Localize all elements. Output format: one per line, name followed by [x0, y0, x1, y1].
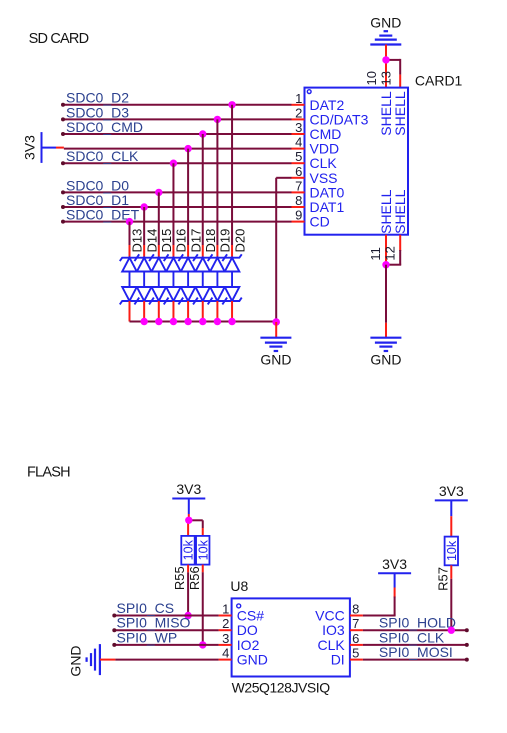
svg-text:6: 6 [352, 631, 359, 646]
wire net SDC0_D3 [63, 118, 292, 120]
svg-text:GND: GND [68, 645, 84, 676]
wire jog to pin 13 [386, 59, 400, 61]
CARD1 pin 12 stub [399, 235, 401, 251]
wire GND to pin 4 [100, 659, 116, 661]
svg-text:GND: GND [260, 352, 291, 368]
junction dot net SDC0_CMD [199, 130, 206, 137]
svg-text:2: 2 [222, 616, 229, 631]
wire D17 to gnd bus [187, 301, 189, 322]
wire net SPI0_MISO [114, 629, 218, 631]
CARD1 pin 3 stub [292, 133, 305, 135]
svg-text:W25Q128JVSIQ: W25Q128JVSIQ [232, 680, 331, 696]
svg-text:CD: CD [310, 214, 330, 230]
junction dot bus/D19 [214, 318, 221, 325]
wire D18 to gnd bus [202, 301, 204, 322]
svg-text:2: 2 [295, 105, 302, 120]
end dot net SDC0_D1 [61, 205, 65, 209]
svg-text:IO3: IO3 [322, 622, 345, 638]
wire to R55 [187, 520, 189, 536]
end dot net SDC0_CLK [61, 161, 65, 165]
svg-text:SDC0_CLK: SDC0_CLK [66, 148, 139, 164]
wire D20 to gnd bus [231, 301, 233, 322]
svg-text:D14: D14 [144, 229, 159, 253]
end dot net SPI0_CLK [465, 643, 469, 647]
svg-text:DAT2: DAT2 [310, 97, 345, 113]
svg-text:DI: DI [331, 652, 345, 668]
wire net SDC0_D1 [63, 206, 292, 208]
svg-text:13: 13 [378, 71, 393, 85]
wire 3V3/VDD down to TVS [187, 149, 189, 245]
junction dot bus/D15 [155, 318, 162, 325]
svg-text:SHELL: SHELL [392, 189, 408, 234]
end dot net SDC0_D0 [61, 190, 65, 194]
U8 pin 7 stub [350, 629, 363, 631]
svg-text:SPI0_MISO: SPI0_MISO [117, 615, 191, 631]
CARD1 pin 6 stub [292, 177, 305, 179]
junction dot bus/D16 [170, 318, 177, 325]
pin-1 indicator CARD1 [307, 90, 311, 94]
svg-text:GND: GND [370, 352, 401, 368]
svg-text:VSS: VSS [310, 170, 338, 186]
svg-text:11: 11 [368, 247, 383, 261]
svg-text:CLK: CLK [317, 637, 345, 653]
svg-text:SD CARD: SD CARD [29, 31, 89, 47]
power 3V3 (R57) [435, 483, 468, 500]
diode D13 (bidirectional TVS) [120, 254, 139, 304]
wire to R56 [188, 519, 203, 521]
wire SDC0_CLK down to TVS [172, 163, 174, 245]
resistor R57 10k [436, 537, 459, 591]
end dot net SPI0_MOSI [465, 658, 469, 662]
svg-text:D20: D20 [232, 229, 247, 253]
U8 pin 6 stub [350, 644, 363, 646]
wire D14 to gnd bus [143, 301, 145, 322]
CARD1 pin 2 stub [292, 118, 305, 120]
svg-text:D16: D16 [174, 229, 189, 253]
svg-text:FLASH: FLASH [27, 465, 70, 481]
diode D20 (bidirectional TVS) [222, 254, 241, 304]
svg-text:IO2: IO2 [237, 637, 260, 653]
junction dot R57/SPI0_HOLD [448, 627, 455, 634]
svg-text:GND: GND [237, 652, 268, 668]
power 3V3 (VCC) [378, 556, 411, 573]
svg-text:10k: 10k [445, 540, 459, 561]
svg-text:SDC0_D0: SDC0_D0 [66, 177, 129, 193]
svg-text:5: 5 [352, 646, 359, 661]
svg-text:SPI0_HOLD: SPI0_HOLD [379, 615, 456, 631]
svg-text:CLK: CLK [310, 155, 338, 171]
wire net SDC0_D0 [63, 191, 292, 193]
svg-text:SPI0_CLK: SPI0_CLK [379, 629, 445, 645]
wire SDC0_DET down to TVS [129, 222, 131, 245]
junction dot net SDC0_CLK [170, 160, 177, 167]
wire net SPI0_WP [114, 644, 218, 646]
U8 pin 4 stub [219, 659, 232, 661]
svg-text:D18: D18 [203, 229, 218, 253]
svg-text:1: 1 [222, 602, 229, 617]
U8 pin 3 stub [219, 644, 232, 646]
svg-text:GND: GND [370, 15, 401, 31]
diode D18 (bidirectional TVS) [193, 254, 212, 304]
U8 pin 8 stub [350, 615, 363, 617]
end dot net SDC0_CMD [61, 132, 65, 136]
svg-text:8: 8 [295, 193, 302, 208]
diode D17 (bidirectional TVS) [178, 254, 197, 304]
wire net SPI0_CLK [363, 644, 467, 646]
junction dot net SDC0_D2 [228, 101, 235, 108]
wire D16 to gnd bus [172, 301, 174, 322]
ground symbol (U8 pin 4) [87, 644, 100, 675]
junction dot net SDC0_D0 [155, 189, 162, 196]
svg-text:3V3: 3V3 [22, 135, 38, 160]
diode D14 (bidirectional TVS) [134, 254, 153, 304]
wire net SPI0_CS [114, 615, 218, 617]
wire R57 to SPI0_HOLD [450, 565, 452, 579]
end dot net SPI0_MISO [112, 628, 116, 632]
gnd bus under diodes [130, 321, 277, 323]
junction dot net SDC0_D1 [140, 203, 147, 210]
svg-text:10k: 10k [182, 539, 196, 560]
wire net 3V3/VDD [64, 148, 292, 150]
end dot net SPI0_HOLD [465, 628, 469, 632]
svg-text:SDC0_D3: SDC0_D3 [66, 104, 129, 120]
CARD1 pin 9 stub [292, 221, 305, 223]
wire SDC0_D1 down to TVS [143, 207, 145, 245]
IC U8 body [232, 598, 350, 676]
svg-text:3V3: 3V3 [439, 483, 464, 499]
wire pin12 to junction [399, 250, 401, 265]
U8 pin 1 stub [219, 615, 232, 617]
svg-text:VCC: VCC [315, 608, 345, 624]
ground symbol (below diodes) [260, 338, 291, 351]
junction dot bus/D18 [199, 318, 206, 325]
wire net SPI0_MOSI [363, 659, 467, 661]
CARD1 pin 1 stub [292, 104, 305, 106]
svg-text:SDC0_D1: SDC0_D1 [66, 192, 129, 208]
svg-text:10k: 10k [196, 539, 210, 560]
end dot net SDC0_D3 [61, 117, 65, 121]
svg-text:6: 6 [295, 164, 302, 179]
svg-text:5: 5 [295, 149, 302, 164]
junction dot R55/SPI0_CS [184, 612, 191, 619]
wire net SPI0_HOLD [363, 629, 467, 631]
svg-text:R56: R56 [187, 566, 202, 590]
wire D13 to gnd bus [129, 301, 131, 322]
svg-text:SDC0_CMD: SDC0_CMD [66, 119, 143, 135]
CARD1 pin 7 stub [292, 191, 305, 193]
connector CARD1 body [305, 88, 409, 235]
U8 pin 2 stub [219, 629, 232, 631]
svg-text:R55: R55 [172, 566, 187, 590]
svg-text:R57: R57 [436, 567, 451, 591]
svg-text:7: 7 [352, 616, 359, 631]
svg-text:D17: D17 [188, 229, 203, 253]
svg-text:D15: D15 [159, 229, 174, 253]
svg-text:12: 12 [382, 246, 397, 260]
svg-text:DO: DO [237, 622, 258, 638]
junction dot net SDC0_D3 [214, 116, 221, 123]
wire SDC0_D2 down to TVS [231, 105, 233, 245]
CARD1 pin 8 stub [292, 206, 305, 208]
wire to GND (left) [275, 322, 277, 338]
svg-text:CARD1: CARD1 [415, 73, 463, 89]
wire SDC0_CMD down to TVS [202, 134, 204, 245]
wire 3V3 to VDD [42, 147, 57, 149]
svg-text:10: 10 [364, 71, 379, 85]
junction dot GND/pins 10,13 [382, 56, 389, 63]
power 3V3 (above R55/R56) [172, 481, 205, 498]
pin 13 stub [399, 75, 401, 88]
wire R56 to SPI0_WP [202, 565, 204, 573]
svg-text:VDD: VDD [310, 141, 340, 157]
svg-text:3V3: 3V3 [382, 556, 407, 572]
diode D15 (bidirectional TVS) [149, 254, 168, 304]
wire SDC0_D3 down to TVS [216, 119, 218, 245]
wire net SDC0_CLK [63, 162, 292, 164]
svg-text:8: 8 [352, 602, 359, 617]
junction dot net 3V3/VDD [184, 145, 191, 152]
CARD1 pin 11 stub/wire [385, 235, 387, 265]
svg-text:3: 3 [295, 120, 302, 135]
end dot net SDC0_DET [61, 220, 65, 224]
svg-text:U8: U8 [230, 578, 248, 594]
svg-text:1: 1 [295, 91, 302, 106]
end dot net SPI0_CS [112, 614, 116, 618]
diode D19 (bidirectional TVS) [208, 254, 227, 304]
ground symbol (below CARD1) [370, 338, 401, 351]
junction dot bus/D14 [140, 318, 147, 325]
wire D15 to gnd bus [158, 301, 160, 322]
wire GND to pin 10 [385, 45, 387, 88]
pin-1 indicator U8 [237, 604, 241, 608]
end dot net SPI0_WP [112, 643, 116, 647]
svg-text:4: 4 [222, 646, 229, 661]
end dot net SDC0_D2 [61, 103, 65, 107]
diode D16 (bidirectional TVS) [164, 254, 183, 304]
wire VSS pin6 [276, 177, 291, 179]
wire net SDC0_D2 [63, 104, 292, 106]
svg-text:4: 4 [295, 135, 302, 150]
junction dot VSS/bus/GND [272, 318, 280, 326]
wire 3V3 to VCC [394, 573, 396, 587]
junction dot bus/D20 [228, 318, 235, 325]
svg-text:SPI0_MOSI: SPI0_MOSI [379, 644, 453, 660]
wire net SDC0_CMD [63, 133, 292, 135]
U8 pin 5 stub [350, 659, 363, 661]
svg-text:D19: D19 [218, 229, 233, 253]
svg-text:CS#: CS# [237, 608, 264, 624]
wire D19 to gnd bus [216, 301, 218, 322]
wire SDC0_D0 down to TVS [158, 192, 160, 245]
resistor R55 10k [172, 536, 195, 590]
svg-text:7: 7 [295, 178, 302, 193]
resistor R56 10k [187, 536, 210, 590]
junction dot bus/D17 [184, 318, 191, 325]
svg-text:D13: D13 [130, 229, 145, 253]
svg-text:9: 9 [295, 208, 302, 223]
svg-text:SPI0_WP: SPI0_WP [117, 629, 178, 645]
wire 3V3 down [188, 499, 190, 515]
ground symbol (top, inverted) [370, 31, 401, 44]
wire to GND (right) [385, 265, 387, 323]
wire R55 to SPI0_CS [187, 565, 189, 573]
wire 3V3 to R57 [450, 500, 452, 516]
svg-text:3V3: 3V3 [176, 481, 201, 497]
junction dot R56/SPI0_WP [199, 641, 206, 648]
power 3V3 (SD card, rotated bar) [22, 132, 42, 163]
CARD1 pin 5 stub [292, 162, 305, 164]
svg-text:CMD: CMD [310, 126, 342, 142]
svg-text:SDC0_D2: SDC0_D2 [66, 90, 129, 106]
wire net SDC0_DET [63, 221, 292, 223]
junction dot pins 11/12 [382, 261, 389, 268]
svg-text:SPI0_CS: SPI0_CS [117, 600, 175, 616]
svg-text:CD/DAT3: CD/DAT3 [310, 111, 369, 127]
svg-text:DAT0: DAT0 [310, 184, 345, 200]
svg-text:SHELL: SHELL [392, 91, 408, 136]
svg-text:3: 3 [222, 631, 229, 646]
junction dot net SDC0_DET [126, 218, 133, 225]
CARD1 pin 4 stub [292, 148, 305, 150]
svg-text:DAT1: DAT1 [310, 199, 345, 215]
